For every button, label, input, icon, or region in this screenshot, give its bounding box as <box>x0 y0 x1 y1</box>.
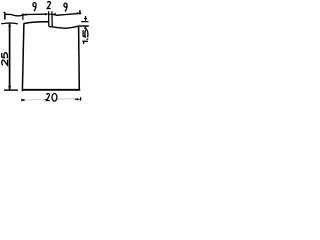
extension line step-left and step wall <box>48 11 50 26</box>
arrowhead at step-right extension <box>52 13 56 16</box>
bottom dimension line faint right segment <box>57 98 76 101</box>
arrowhead 1.5 up <box>84 26 87 29</box>
extension line bottom-right stub <box>80 97 82 100</box>
extension line 1.5 upper <box>81 21 88 23</box>
top dimension leader terminator <box>4 13 6 20</box>
arrowhead 25 bottom <box>8 86 11 90</box>
dimension line right segment <box>56 13 81 15</box>
dimension label 1.5 (rotated) : digit 5 <box>83 30 88 38</box>
plate bottom edge <box>22 89 80 91</box>
dimension label 1.5 (rotated) : digit 1 <box>83 41 88 44</box>
plate right edge <box>78 26 81 90</box>
dimension label 20 : digit 0 <box>52 94 57 102</box>
dimension label 2 <box>47 2 50 9</box>
plate left edge <box>22 23 24 91</box>
arrowhead 20 right <box>77 98 80 101</box>
top dimension line / leader from far left <box>5 14 46 16</box>
dimension label 9 right <box>64 3 67 11</box>
extension line left top <box>1 22 18 25</box>
leader terminator top tick <box>3 11 5 13</box>
plate top surface low (right of step) and its extension right <box>49 26 89 28</box>
1.5 dimension stub above <box>85 16 87 19</box>
extension line step-right / step wall <box>51 11 53 26</box>
dimension line bridge over step <box>49 14 59 15</box>
extension line bottom-left stub <box>21 99 23 102</box>
arrowhead 20 left <box>21 99 25 101</box>
left 25-dimension line <box>9 24 11 90</box>
faint line remnant left of label <box>45 99 46 101</box>
bottom dimension line faint left segment <box>25 99 45 102</box>
arrowhead 25 top <box>8 23 11 27</box>
arrowhead at left extension <box>23 13 27 16</box>
arrowhead at step-left extension <box>45 13 49 16</box>
arrowhead 1.5 down <box>84 18 87 21</box>
dimension label 25 (rotated) : digit 5 <box>2 53 8 58</box>
dimension label 20 : digit 2 <box>46 94 49 101</box>
plate top surface high (left of step) <box>24 22 49 24</box>
dimension label 1.5 (rotated) : decimal point <box>87 39 89 40</box>
dimension label 25 (rotated) : digit 2 <box>2 60 8 66</box>
extension line top-right corner <box>79 10 81 15</box>
arrowhead 20 right tail <box>75 98 78 100</box>
extension line left bottom <box>4 89 18 91</box>
extension line top-left corner <box>22 13 24 20</box>
dimension label 9 left <box>33 3 36 12</box>
arrowhead at right extension <box>77 12 80 15</box>
